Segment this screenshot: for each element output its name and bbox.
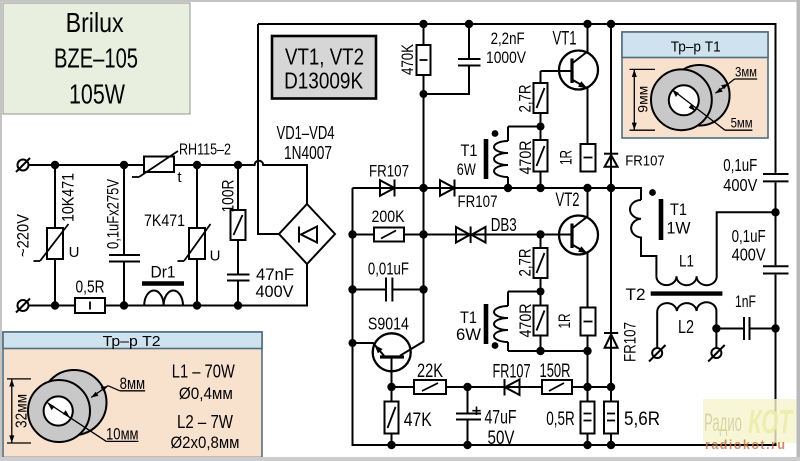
svg-text:1R: 1R bbox=[557, 150, 576, 165]
svg-text:VT1: VT1 bbox=[553, 29, 577, 50]
wire resistor 100R / capacitor 47nF column bbox=[237, 165, 239, 306]
svg-text:VD1–VD4: VD1–VD4 bbox=[277, 123, 335, 143]
wire T1 6W lower winding connections bbox=[508, 292, 541, 352]
lamp terminal left bbox=[649, 345, 666, 362]
svg-text:10мм: 10мм bbox=[106, 425, 139, 444]
thermistor RH115-2 bbox=[132, 151, 178, 177]
svg-text:7K471: 7K471 bbox=[144, 211, 185, 230]
wire S9014 collector bbox=[400, 290, 424, 356]
wire right rail bottom + bottom rail + negative left rail bbox=[353, 188, 776, 445]
wire emitter node row y351 bbox=[508, 350, 588, 352]
svg-text:400V: 400V bbox=[723, 175, 757, 195]
resistor 150R bbox=[542, 380, 572, 394]
toroid T2 front ring bbox=[28, 380, 90, 442]
wire capacitor 2,2nF branch bbox=[424, 24, 470, 94]
node dots emitter row y351 bbox=[536, 347, 591, 355]
svg-text:2,7R: 2,7R bbox=[516, 249, 535, 277]
transistor S9014 bbox=[373, 333, 411, 371]
svg-text:T2: T2 bbox=[626, 285, 646, 304]
wire varistor 7K471 column bbox=[196, 165, 198, 306]
svg-text:105W: 105W bbox=[69, 79, 125, 110]
svg-text:FR107: FR107 bbox=[625, 153, 665, 169]
LABELS rotated bbox=[14, 43, 640, 362]
wire VT2 collector up bbox=[572, 188, 588, 229]
svg-text:1N4007: 1N4007 bbox=[284, 143, 332, 163]
resistor 22K bbox=[414, 380, 446, 394]
svg-text:1000V: 1000V bbox=[486, 48, 527, 67]
resistor 470R lower bbox=[534, 306, 548, 336]
polarity dot T1 1W bbox=[649, 189, 656, 196]
core Dr1 bbox=[142, 281, 184, 285]
svg-text:VT2: VT2 bbox=[556, 190, 580, 211]
toroid T2 back ring bbox=[42, 370, 107, 435]
svg-text:0,5R: 0,5R bbox=[546, 409, 575, 430]
svg-text:FR107: FR107 bbox=[621, 322, 640, 362]
svg-text:radiokot.ru: radiokot.ru bbox=[705, 438, 785, 452]
varistor 7K471 bbox=[178, 224, 211, 261]
wire x611 rail segments bbox=[610, 24, 612, 445]
svg-text:470R: 470R bbox=[516, 141, 535, 175]
svg-text:T1: T1 bbox=[461, 141, 478, 160]
svg-text:RH115–2: RH115–2 bbox=[179, 142, 231, 159]
capacitor 47nF bbox=[227, 275, 250, 281]
diode FR107 vertical upper bbox=[604, 154, 618, 167]
wire top rail and right rail top bbox=[258, 24, 776, 173]
wire resistor 47K column bbox=[391, 387, 393, 445]
resistor 1R upper bbox=[581, 144, 596, 172]
svg-text:Радио: Радио bbox=[704, 409, 742, 437]
resistor 2,7R lower bbox=[534, 248, 548, 278]
svg-text:FR107: FR107 bbox=[493, 362, 531, 383]
capacitor 1nF bbox=[744, 317, 750, 340]
resistor 0,5R bottom bbox=[581, 402, 595, 434]
node dot VT1 base divider bbox=[537, 123, 545, 131]
svg-text:Brilux: Brilux bbox=[66, 7, 124, 38]
polarity dot T1 6W lower bbox=[492, 342, 499, 349]
wire capacitor 0,1uFx275V column bbox=[123, 165, 125, 306]
svg-text:Ø2х0,8мм: Ø2х0,8мм bbox=[171, 433, 240, 452]
node dots top rail bbox=[419, 20, 615, 28]
dimension 32mm bbox=[7, 379, 31, 443]
node dots 0,01uF row bbox=[348, 285, 427, 293]
svg-text:0,1uF: 0,1uF bbox=[732, 226, 766, 246]
svg-text:FR107: FR107 bbox=[458, 192, 498, 211]
resistor 47K bbox=[385, 402, 399, 434]
winding T1 6W upper bbox=[494, 141, 508, 177]
core T1 1W bbox=[659, 199, 664, 240]
diac DB3 bbox=[456, 227, 486, 244]
resistor 100R bbox=[231, 210, 246, 240]
wire lamp terminal left bbox=[656, 311, 658, 348]
dimension 9mm bbox=[630, 69, 656, 130]
svg-text:Тр–р Т1: Тр–р Т1 bbox=[671, 39, 721, 56]
svg-text:50V: 50V bbox=[488, 428, 515, 449]
resistor 470K bbox=[417, 45, 431, 75]
box Tp-p T1 bbox=[622, 32, 768, 138]
wire 2,7R to 470R upper column bbox=[540, 113, 542, 188]
svg-text:0,01uF: 0,01uF bbox=[368, 259, 409, 279]
wire right rail middle bbox=[775, 183, 777, 266]
svg-text:400V: 400V bbox=[256, 282, 295, 301]
svg-text:0,5R: 0,5R bbox=[76, 277, 105, 297]
transistor VT2 bbox=[559, 216, 598, 255]
dimension 5mm bbox=[672, 90, 752, 131]
svg-text:6W: 6W bbox=[456, 325, 481, 344]
svg-text:Тр–р Т2: Тр–р Т2 bbox=[103, 333, 161, 350]
resistor 0,5R input bbox=[75, 298, 105, 313]
varistor 10K471 bbox=[34, 224, 69, 261]
svg-text:L1 – 70W: L1 – 70W bbox=[172, 361, 235, 381]
node dots mid rail y188 bbox=[419, 184, 615, 192]
resistor 1R lower bbox=[581, 308, 596, 336]
LABELS horizontal bbox=[69, 29, 766, 450]
Tp-p T2 info box bbox=[3, 332, 262, 458]
svg-text:470R: 470R bbox=[516, 304, 535, 338]
svg-text:150R: 150R bbox=[540, 361, 571, 382]
dimension 8mm bbox=[91, 386, 145, 398]
svg-text:2,2nF: 2,2nF bbox=[491, 29, 525, 48]
svg-text:1nF: 1nF bbox=[735, 292, 756, 311]
inductor L1 winding bbox=[656, 212, 775, 285]
bridge rectifier VD1-VD4 bbox=[279, 204, 335, 264]
svg-text:U: U bbox=[69, 244, 80, 261]
svg-text:КОТ: КОТ bbox=[748, 403, 794, 440]
wire capacitor 47uF column bbox=[467, 387, 469, 445]
svg-text:200K: 200K bbox=[372, 207, 406, 226]
svg-text:VT1, VT2: VT1, VT2 bbox=[285, 44, 364, 70]
wire 1nF to right rail bbox=[750, 328, 776, 330]
svg-text:FR107: FR107 bbox=[369, 162, 409, 181]
Tp-p T1 info box bbox=[622, 32, 768, 138]
wire DB3 row to VT2 base bbox=[353, 234, 573, 236]
svg-text:DB3: DB3 bbox=[491, 215, 517, 235]
svg-text:~220V: ~220V bbox=[14, 213, 33, 257]
winding T1 6W lower bbox=[494, 306, 508, 342]
node dots AC top bbox=[51, 161, 242, 169]
diode FR107 second on mid rail bbox=[440, 180, 455, 197]
polarity dot T1 6W upper bbox=[492, 130, 499, 137]
core T1 6W upper bbox=[484, 139, 489, 179]
wire trigger row y387 bbox=[392, 386, 612, 388]
svg-text:S9014: S9014 bbox=[368, 314, 409, 334]
dimension 10mm bbox=[48, 403, 139, 442]
node dots trigger row y387 bbox=[387, 383, 615, 391]
wire lamp terminal right / 1nF node bbox=[716, 329, 744, 349]
wire capacitor 0,01uF row bbox=[353, 289, 424, 291]
toroid T1 back ring bbox=[669, 65, 730, 126]
note box VT1 VT2 D13009K bbox=[272, 36, 376, 99]
wire x423 rail bbox=[423, 24, 425, 290]
svg-text:5,6R: 5,6R bbox=[624, 409, 660, 430]
inductor Dr1 winding bbox=[144, 291, 183, 306]
wire 2,7R to 470R lower column bbox=[540, 278, 542, 351]
wire mid rail to T1 winding bbox=[353, 188, 642, 200]
transistor VT1 bbox=[559, 51, 598, 90]
node dot S9014 emitter bbox=[349, 339, 357, 347]
capacitor 0,1uFx275V bbox=[109, 255, 140, 262]
capacitor 47uF electrolytic bbox=[456, 407, 481, 420]
svg-text:47uF: 47uF bbox=[485, 408, 517, 429]
node dot VT2 base divider bbox=[537, 288, 545, 296]
terminal input top bbox=[16, 158, 30, 172]
svg-text:L2: L2 bbox=[678, 317, 694, 337]
svg-text:3мм: 3мм bbox=[735, 64, 757, 80]
lamp terminal right bbox=[708, 345, 725, 362]
wire AC input bottom bbox=[29, 264, 308, 306]
node dots bottom rail bbox=[387, 441, 615, 449]
toroid T1 hole bbox=[669, 85, 699, 115]
svg-text:32мм: 32мм bbox=[14, 394, 31, 428]
core T1 6W lower bbox=[484, 304, 489, 344]
capacitor 0,1uF 400V lower right bbox=[763, 266, 789, 273]
node dots DB3 row bbox=[348, 230, 544, 238]
wire VT2 emitter column 0,5R bbox=[587, 351, 589, 445]
winding T1 1W and connections bbox=[630, 200, 656, 276]
diode FR107 left on mid rail bbox=[380, 180, 395, 197]
svg-text:8мм: 8мм bbox=[120, 374, 146, 393]
node dots right side bbox=[712, 208, 780, 333]
box Tp-p T2 bbox=[3, 332, 262, 458]
capacitor 0,1uF 400V upper right bbox=[763, 174, 789, 181]
svg-text:0,1uF: 0,1uF bbox=[723, 155, 757, 175]
svg-text:T1: T1 bbox=[670, 200, 687, 219]
resistor 2,7R upper bbox=[534, 83, 548, 113]
svg-text:L1: L1 bbox=[679, 252, 694, 271]
core T2 bar bbox=[651, 291, 723, 295]
wire T1 6W upper winding connections bbox=[508, 127, 541, 189]
svg-text:47K: 47K bbox=[404, 410, 432, 431]
svg-text:5мм: 5мм bbox=[731, 115, 753, 131]
svg-text:U: U bbox=[210, 248, 221, 265]
wire VT1 base bbox=[541, 71, 573, 83]
wire VT1 emitter down to 1R bbox=[587, 88, 589, 145]
svg-text:100R: 100R bbox=[219, 180, 238, 213]
resistor 200K bbox=[374, 228, 404, 242]
svg-text:BZE–105: BZE–105 bbox=[54, 42, 138, 73]
wire VT1 collector up bbox=[572, 24, 588, 64]
capacitor 2,2nF bbox=[458, 59, 481, 66]
svg-text:Ø0,4мм: Ø0,4мм bbox=[179, 384, 233, 403]
svg-text:10K471: 10K471 bbox=[59, 173, 78, 222]
svg-text:D13009K: D13009K bbox=[284, 68, 364, 94]
wire 1R lower bottom bbox=[587, 336, 589, 352]
diode FR107 vertical lower bbox=[604, 333, 618, 348]
wire varistor 10K471 column bbox=[54, 165, 56, 306]
wire S9014 base down bbox=[391, 357, 393, 387]
toroid T1 front ring bbox=[651, 69, 712, 130]
dimension 3mm bbox=[715, 79, 757, 93]
resistor 470R upper bbox=[534, 140, 548, 172]
node dot 470K bottom bbox=[420, 90, 428, 98]
svg-text:2,7R: 2,7R bbox=[516, 85, 535, 113]
resistor 5,6R bbox=[604, 402, 618, 434]
watermark radiokot bbox=[703, 399, 797, 452]
node dots AC bottom bbox=[51, 301, 242, 309]
wire VT2 emitter down bbox=[587, 253, 589, 308]
wire AC input top bbox=[29, 161, 308, 204]
title box Brilux BZE-105 105W bbox=[3, 3, 190, 114]
svg-text:470K: 470K bbox=[398, 43, 417, 75]
svg-text:9мм: 9мм bbox=[635, 86, 651, 113]
wire x258 rail with hop over AC wire bbox=[258, 24, 279, 234]
wire S9014 emitter to rail bbox=[353, 343, 385, 356]
svg-text:22K: 22K bbox=[417, 361, 443, 382]
svg-text:400V: 400V bbox=[732, 245, 766, 265]
svg-text:6W: 6W bbox=[457, 160, 476, 179]
svg-text:1R: 1R bbox=[555, 314, 574, 329]
capacitor 0,01uF bbox=[386, 278, 392, 302]
wire VT2 base column bbox=[540, 235, 542, 249]
inductor L2 winding bbox=[657, 302, 716, 328]
svg-text:0,1uFx275V: 0,1uFx275V bbox=[104, 179, 123, 249]
terminal input bottom bbox=[16, 299, 30, 313]
svg-text:Dr1: Dr1 bbox=[151, 263, 176, 282]
toroid T2 hole bbox=[44, 396, 73, 425]
svg-text:L2 – 7W: L2 – 7W bbox=[177, 412, 233, 432]
diode FR107 bottom row bbox=[505, 379, 520, 396]
svg-text:1W: 1W bbox=[667, 219, 691, 238]
